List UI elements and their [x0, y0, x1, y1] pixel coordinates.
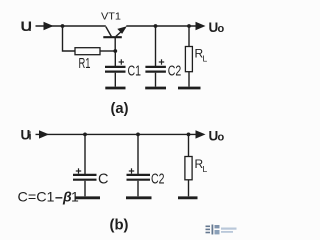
ground bar under C1 (a)	[105, 87, 125, 90]
node Ui (circuit b) label	[21, 128, 32, 143]
svg-text:C=C1: C=C1	[18, 189, 55, 205]
svg-text:C2: C2	[151, 172, 165, 188]
svg-text:C2: C2	[168, 64, 182, 80]
svg-text:(b): (b)	[110, 218, 129, 234]
label (a)	[111, 101, 129, 117]
label VT1	[101, 11, 121, 23]
wire C2 top (a)	[155, 26, 157, 66]
plus sign of C1	[119, 59, 124, 64]
label C (b)	[98, 172, 108, 188]
ground bar under RL (a)	[178, 87, 201, 90]
capacitor C2 (b)	[127, 134, 151, 196]
node junction dot C top (b)	[83, 133, 87, 137]
resistor RL (a)	[185, 47, 192, 72]
svg-text:i: i	[29, 22, 32, 34]
label R1	[79, 56, 91, 72]
wire R1 to base node (a)	[100, 50, 115, 52]
plus sign of C (b)	[76, 168, 81, 173]
svg-text:C: C	[98, 172, 108, 188]
ground bar under C2 (b)	[126, 196, 152, 199]
node junction dot C2 top (b)	[136, 133, 140, 137]
svg-text:L: L	[203, 164, 208, 174]
wire top rail right of VT1 to output (a)	[126, 25, 195, 27]
wire down from Ui node to R1 (a)	[63, 26, 76, 51]
plus sign of C2 (b)	[129, 168, 134, 173]
output arrow (a)	[196, 22, 206, 30]
watermark logo bottom right	[206, 225, 237, 235]
formula C=C1-B1	[18, 189, 80, 205]
output arrow (b)	[196, 130, 206, 138]
svg-text:(a): (a)	[111, 101, 129, 117]
svg-text:C1: C1	[128, 64, 142, 80]
input arrow (a)	[44, 22, 54, 30]
resistor R1	[75, 48, 100, 55]
wire RL bottom (b)	[188, 180, 190, 197]
svg-text:i: i	[29, 131, 32, 143]
label RL (a)	[195, 47, 208, 64]
svg-text:1: 1	[71, 189, 79, 205]
wire input lead (a)	[36, 25, 63, 27]
wire top rail (b)	[85, 133, 196, 135]
ground bar under C (b)	[76, 196, 101, 199]
node junction dot RL top (b)	[187, 133, 191, 137]
node Uo (circuit b) label	[209, 129, 225, 144]
node junction dot R1/C1/base (a)	[113, 49, 117, 53]
wire RL top (a)	[188, 26, 190, 47]
plus sign of C2 (a)	[159, 59, 164, 64]
capacitor C2 (a)	[145, 67, 166, 87]
node junction dot RL top (a)	[187, 24, 191, 28]
input arrow (b)	[39, 130, 49, 138]
svg-text:L: L	[203, 54, 208, 64]
svg-text:–: –	[55, 189, 63, 205]
wire RL bottom (a)	[188, 72, 190, 87]
svg-text:o: o	[218, 23, 225, 35]
svg-text:o: o	[218, 132, 225, 144]
label C2 (b)	[151, 172, 165, 188]
wire top rail left segment to VT1 collector (a)	[63, 25, 106, 27]
node junction dot C2 top (a)	[154, 24, 158, 28]
ground bar under RL (b)	[178, 196, 198, 199]
resistor RL (b)	[185, 157, 192, 180]
label (b)	[110, 218, 129, 234]
label RL (b)	[195, 157, 208, 174]
node Ui (circuit a) label	[21, 19, 33, 34]
node Uo (circuit a) label	[209, 20, 225, 35]
capacitor C (b)	[73, 134, 97, 196]
wire input lead (b)	[36, 133, 86, 135]
wire RL top (b)	[188, 134, 190, 156]
node junction dot at Ui rail (a)	[61, 24, 65, 28]
svg-text:VT1: VT1	[101, 11, 121, 23]
label C2 (a)	[168, 64, 182, 80]
ground bar under C2 (a)	[145, 87, 166, 90]
label C1	[128, 64, 142, 80]
svg-text:R1: R1	[79, 56, 91, 72]
transistor VT1	[103, 26, 127, 51]
capacitor C1	[105, 51, 126, 87]
